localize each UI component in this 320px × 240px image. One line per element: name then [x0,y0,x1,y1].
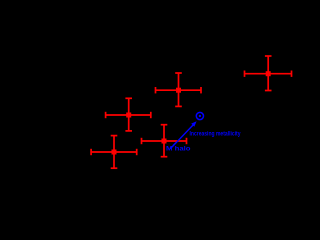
data point 1 marker [266,71,271,76]
data point 3 error bars [106,98,151,131]
data point 5 marker [112,150,117,155]
data point 1 (top right) error bars [245,56,292,91]
data point 2 marker [176,88,181,93]
data point 4 marker [162,139,167,144]
arrowhead [191,121,196,127]
data point 2 error bars [156,73,202,106]
sun symbol dot [199,115,201,117]
data point 4 error bars [142,125,187,157]
data point 3 marker [126,113,131,118]
annotation arrow [170,124,194,149]
sun symbol circle [196,112,203,119]
data point 5 error bars [91,136,137,169]
svg-text:M halo: M halo [166,145,191,152]
svg-text:Increasing metallicity: Increasing metallicity [190,130,241,137]
